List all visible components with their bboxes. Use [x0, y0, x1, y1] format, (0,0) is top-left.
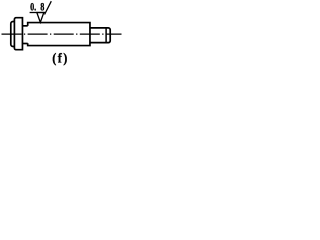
left cap: [11, 22, 14, 47]
caption (f): [52, 50, 69, 66]
background: [0, 0, 126, 68]
roughness value 0.8: [30, 1, 44, 14]
neck top line: [22, 25, 27, 27]
roughness symbol triangle: [37, 13, 44, 23]
svg-text:8: 8: [40, 1, 44, 14]
head flange: [14, 18, 22, 50]
main cylinder: [28, 23, 90, 46]
centerline: [2, 33, 122, 35]
right journal with rounded end: [90, 28, 110, 43]
svg-text:(f): (f): [52, 50, 69, 66]
neck bottom line: [22, 43, 27, 45]
svg-text:0.: 0.: [30, 1, 36, 14]
roughness symbol long leg: [45, 1, 52, 14]
tip edge line: [105, 28, 107, 43]
roughness symbol bar: [30, 12, 46, 14]
